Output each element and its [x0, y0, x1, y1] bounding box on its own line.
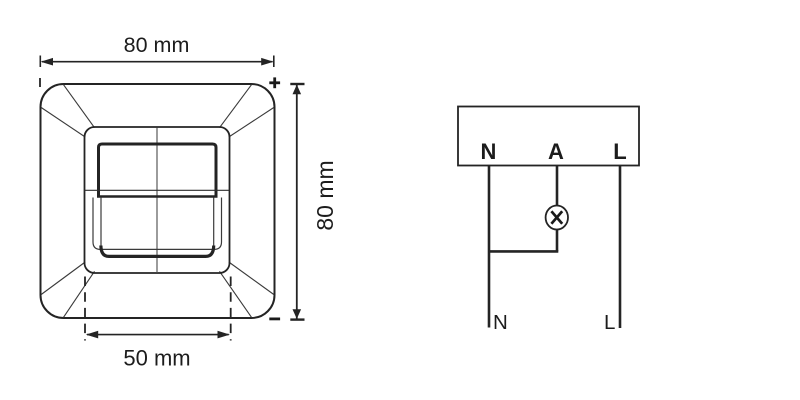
svg-text:A: A [548, 139, 564, 164]
dim 80mm top: right extension tick [273, 56, 275, 68]
sensor window upper (thick rect) [99, 144, 217, 197]
lens bottom thick bar [101, 246, 214, 257]
lens inner side left [100, 198, 102, 247]
dim 80mm right: bottom arrowhead [293, 309, 302, 319]
bezel diagonal bottom-left lower [64, 271, 95, 317]
svg-text:80 mm: 80 mm [312, 160, 338, 230]
bezel diagonal bottom-right upper [229, 262, 274, 295]
center line [156, 128, 158, 274]
dim 80mm top: left arrowhead [41, 58, 53, 66]
plus mark [269, 77, 280, 88]
lamp X1 cross [551, 211, 562, 224]
sensor inner plate [85, 127, 230, 273]
bezel diagonal top-right upper [220, 85, 252, 128]
dim 80mm right: dimension line [296, 85, 298, 319]
dim 80mm right: bottom extension tick [290, 318, 304, 320]
terminal box [458, 107, 639, 166]
wire L [619, 166, 622, 328]
svg-text:L: L [604, 311, 615, 334]
window split line [85, 189, 230, 191]
dim 80mm top: left extension tick [39, 56, 41, 68]
bezel diagonal top-left lower [41, 108, 85, 138]
dim 80mm right: top extension tick [290, 83, 304, 85]
dim 80mm right: top arrowhead [293, 85, 302, 95]
lens outer contour [93, 198, 222, 250]
dim 50mm bottom: dimension line [87, 334, 229, 336]
wire A upper [556, 166, 559, 206]
bezel diagonal bottom-left upper [41, 262, 85, 295]
dim 50mm bottom: right arrowhead [218, 331, 230, 339]
dim 50mm bottom: left arrowhead [86, 331, 98, 339]
lamp X1 circle [546, 206, 568, 230]
lens inner side right [213, 198, 215, 247]
svg-text:80 mm: 80 mm [124, 33, 190, 57]
window split thick line [97, 195, 218, 198]
sensor outer frame [41, 84, 275, 318]
bezel diagonal top-right lower [229, 108, 274, 138]
wire A lower [556, 230, 559, 252]
bezel diagonal bottom-right lower [220, 271, 252, 317]
minus mark [269, 317, 280, 320]
bezel diagonal top-left upper [64, 85, 95, 128]
svg-text:50 mm: 50 mm [123, 346, 190, 371]
dim 50mm bottom: right dashed extension [230, 277, 232, 341]
wire N [488, 166, 491, 328]
wire bridge A to N [488, 250, 558, 253]
dim 80mm top: dimension line [42, 61, 273, 63]
dim 50mm bottom: left dashed extension [84, 277, 86, 341]
svg-text:N: N [493, 311, 508, 334]
dim 80mm top: right arrowhead [261, 58, 273, 66]
svg-text:N: N [481, 139, 497, 164]
svg-text:L: L [613, 139, 626, 164]
dim 80mm top: left extension dash [39, 78, 41, 87]
